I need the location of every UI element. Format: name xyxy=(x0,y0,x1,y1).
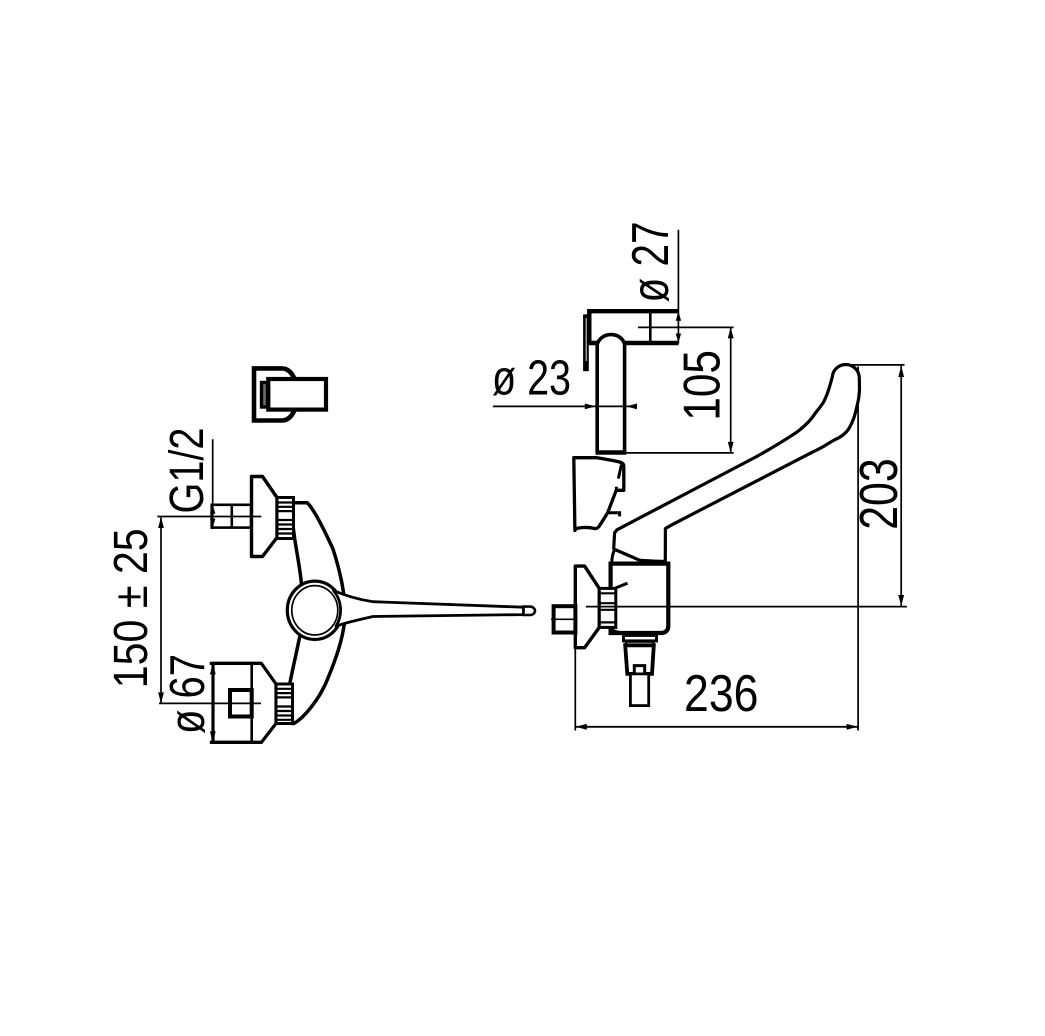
dimension 105: arrows xyxy=(728,327,734,338)
dimension 203: top extension xyxy=(848,364,905,366)
front view: bottom inlet stub xyxy=(230,690,252,717)
dimension 203: arrows xyxy=(898,366,904,377)
svg-text:150 ± 25: 150 ± 25 xyxy=(104,528,158,688)
dimension 236: left extension line xyxy=(574,648,576,731)
front view: top escutcheon xyxy=(252,477,278,557)
side view: spout arm xyxy=(589,311,678,343)
side view: aerator key xyxy=(634,666,644,673)
side view: aerator cone xyxy=(625,645,654,674)
side view: spout column with dome xyxy=(597,335,624,453)
dimension 150±25: bottom extension (center line of bottom stub) xyxy=(159,702,261,704)
side view: outlet tube xyxy=(630,674,648,706)
dimension 150±25: top extension (center line of top stub) xyxy=(157,516,261,518)
dimension 105: bottom extension xyxy=(626,452,734,454)
dimension 150±25: dimension line xyxy=(160,518,162,704)
side view: spout base wedge xyxy=(574,458,624,531)
side view: inlet stub center line xyxy=(551,618,578,620)
svg-text:ø 23: ø 23 xyxy=(492,352,571,406)
dimension Ø27: arrows xyxy=(676,312,681,321)
dimension 105: dimension line xyxy=(730,327,732,453)
dimension Ø27: extension line xyxy=(677,230,679,344)
dimension 236: arrows xyxy=(576,724,587,730)
dimension 236: right extension line (under lever) xyxy=(857,366,859,730)
wall bracket side view: slider block xyxy=(268,379,326,410)
dimension Ø23: arrows xyxy=(585,404,596,410)
front view: bottom escutcheon xyxy=(213,663,276,742)
side view: spout base wedge: seat step xyxy=(608,487,620,517)
svg-text:ø 67: ø 67 xyxy=(161,654,215,734)
front view: lever tip cap xyxy=(524,607,536,615)
dimension 203: dimension line xyxy=(900,365,902,607)
wall bracket side view: D-shaped body xyxy=(254,368,297,420)
svg-text:ø 27: ø 27 xyxy=(622,222,680,303)
dimension Ø23: leader line xyxy=(493,405,632,407)
front view: top inlet stub G1/2 xyxy=(212,505,251,528)
side view: wall escutcheon (edge-on) xyxy=(575,566,599,648)
dimension 105: top extension (arm center line) xyxy=(638,326,734,328)
front view: lever knob ring xyxy=(287,581,342,639)
side view: inlet stub xyxy=(554,606,576,632)
side view: spout outlet plate xyxy=(583,314,589,371)
svg-text:236: 236 xyxy=(684,665,759,723)
side view: lever handle xyxy=(614,364,860,561)
svg-text:105: 105 xyxy=(674,350,732,421)
side view: lever pivot skirt line xyxy=(612,550,615,563)
dimension 236: dimension line xyxy=(575,726,858,728)
side view: spout base wedge: swivel joint line xyxy=(619,466,622,478)
wall bracket side view: gray clip bar xyxy=(262,383,268,408)
side view: cartridge body xyxy=(611,564,669,633)
dimension G1/2: extension line xyxy=(212,439,214,529)
front view: body shroud (crescent) xyxy=(289,503,345,724)
dimension 150±25: arrows xyxy=(158,517,164,528)
side view: nut-to-body links xyxy=(616,583,628,588)
front view: top union nut (hatched) xyxy=(277,498,294,539)
side view: aerator collar 2 xyxy=(626,642,654,646)
side view: valve axis center line xyxy=(586,606,907,608)
front view: bottom union nut (hatched) xyxy=(276,684,293,724)
dimension Ø67: arrows xyxy=(210,663,216,674)
svg-text:203: 203 xyxy=(850,458,909,530)
side view: aerator collar 1 xyxy=(624,635,657,641)
front view: lever arm xyxy=(334,591,524,627)
dimension Ø67: dimension line xyxy=(212,663,214,742)
dimension G1/2: arrows xyxy=(210,505,215,514)
side view: union nut (hatched) xyxy=(599,588,616,627)
svg-text:G1/2: G1/2 xyxy=(160,428,214,514)
